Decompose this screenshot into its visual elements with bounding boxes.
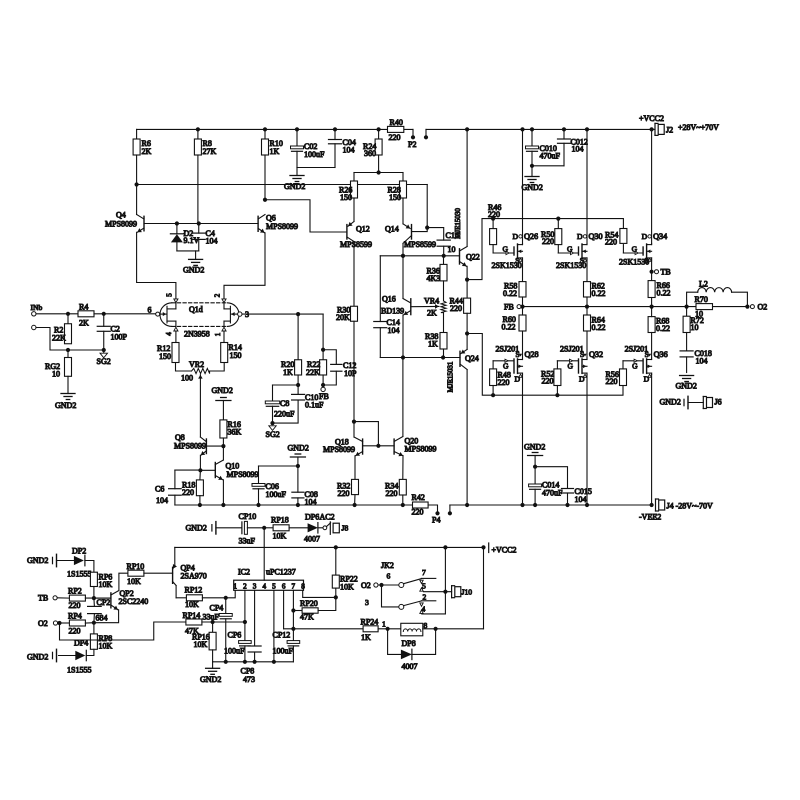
svg-text:MJE15030: MJE15030	[454, 208, 462, 239]
svg-text:GND2: GND2	[186, 524, 207, 533]
resistor RP6	[90, 572, 97, 586]
wire R8 down	[197, 155, 199, 224]
resistor RP24	[363, 626, 378, 632]
svg-text:MPS8599: MPS8599	[340, 240, 372, 249]
resistor R58	[522, 260, 524, 282]
pin 5	[174, 299, 178, 303]
wire bias rail corner to Q14 base	[426, 185, 428, 228]
wire +VCC2 line	[175, 546, 484, 548]
svg-text:5: 5	[272, 582, 276, 590]
svg-text:GND2: GND2	[55, 401, 76, 410]
ground SG2	[103, 350, 105, 353]
svg-text:S: S	[516, 350, 520, 359]
svg-text:33uF: 33uF	[239, 537, 256, 546]
pin 6	[156, 312, 160, 316]
svg-text:L2: L2	[699, 280, 708, 289]
svg-text:S: S	[580, 350, 584, 359]
resistor R2	[67, 314, 69, 324]
wire R6 to Q4 collector	[136, 155, 138, 215]
wire bias rail	[137, 184, 428, 186]
svg-text:Q22: Q22	[466, 253, 480, 262]
svg-text:G: G	[503, 245, 509, 254]
svg-text:3: 3	[253, 582, 257, 590]
wire R4 to pin6	[94, 313, 156, 315]
resistor RP20	[293, 610, 302, 612]
wire bias bottom line	[380, 357, 460, 359]
relay arm 1	[404, 579, 422, 584]
wire gate 651.6	[622, 245, 624, 253]
svg-text:47K: 47K	[300, 613, 314, 622]
wire Q6 collector junction	[263, 198, 267, 202]
svg-text:150: 150	[159, 352, 171, 361]
connector J8	[329, 522, 331, 534]
Q1d left half	[166, 306, 168, 323]
mosfet Q34 2SK1530	[642, 247, 644, 255]
resistor R12	[175, 331, 177, 343]
Q1d right half	[229, 306, 231, 323]
svg-text:220: 220	[338, 489, 350, 498]
svg-text:104: 104	[696, 357, 708, 366]
wire Q34 drain	[651, 129, 653, 243]
svg-text:GND2: GND2	[660, 398, 681, 407]
svg-text:MPS8099: MPS8099	[266, 222, 298, 231]
capacitor CP2	[93, 598, 96, 606]
ground GND2 below C018	[680, 375, 694, 377]
svg-text:2SC2240: 2SC2240	[119, 597, 149, 606]
resistor R48	[490, 369, 497, 386]
svg-text:J6: J6	[715, 398, 722, 407]
svg-text:10K: 10K	[185, 600, 199, 609]
svg-text:4: 4	[262, 582, 266, 590]
svg-text:RP18: RP18	[271, 516, 289, 525]
transistor Q18	[362, 439, 364, 454]
transistor Q1d 2N3958	[160, 303, 172, 327]
svg-text:G: G	[632, 362, 638, 371]
wire R30 to Q18	[353, 321, 355, 421]
wire to R2 bottom	[36, 328, 68, 351]
wire Q36 drain	[651, 375, 653, 506]
svg-text:Q16: Q16	[382, 295, 396, 304]
node TB	[651, 260, 653, 281]
svg-text:CP10: CP10	[239, 512, 257, 521]
transistor Q22 MJE15030	[459, 249, 461, 264]
svg-text:CP6: CP6	[228, 631, 242, 640]
svg-text:G: G	[632, 245, 638, 254]
resistor R66	[648, 281, 655, 298]
resistor R18	[199, 470, 202, 480]
wire Q36 source	[651, 333, 653, 359]
svg-text:0.1uF: 0.1uF	[305, 401, 324, 410]
resistor RP12	[186, 595, 202, 601]
svg-text:IC2: IC2	[238, 568, 250, 577]
svg-text:470uF: 470uF	[540, 152, 561, 161]
resistor R70	[696, 304, 713, 310]
svg-text:MPS8099: MPS8099	[174, 442, 206, 451]
svg-text:FB: FB	[504, 303, 514, 312]
svg-text:220: 220	[389, 133, 401, 142]
svg-text:D: D	[577, 232, 583, 241]
inductor L2	[687, 292, 698, 306]
diode DP2 1S1555	[74, 556, 84, 565]
svg-text:VR4: VR4	[424, 297, 439, 306]
svg-text:220: 220	[412, 508, 424, 517]
svg-text:33uF: 33uF	[203, 613, 220, 622]
svg-text:Q28: Q28	[525, 350, 539, 359]
resistor RP22	[335, 547, 337, 575]
svg-text:+28V~+70V: +28V~+70V	[678, 123, 719, 132]
resistor R10	[264, 129, 266, 139]
svg-text:MJE15031: MJE15031	[447, 361, 455, 392]
wire Q6 emitter to pin2	[224, 233, 265, 299]
capacitor C16	[427, 228, 444, 241]
capacitor C10	[292, 393, 305, 395]
svg-text:S: S	[645, 350, 649, 359]
transistor Q4	[143, 216, 145, 231]
svg-text:100P: 100P	[111, 333, 128, 342]
svg-text:-VEE2: -VEE2	[639, 513, 661, 522]
capacitor C2	[103, 314, 105, 327]
svg-text:CP12: CP12	[273, 631, 291, 640]
capacitor CP8	[248, 645, 261, 647]
svg-text:GND2: GND2	[200, 675, 221, 684]
resistor R20	[297, 314, 299, 360]
svg-text:Q24: Q24	[465, 354, 479, 363]
wire pin2 to CP6	[244, 590, 246, 640]
wire +VCC2 bus down	[483, 547, 485, 628]
svg-text:22K: 22K	[306, 368, 320, 377]
svg-text:220: 220	[450, 304, 462, 313]
svg-text:MPS8099: MPS8099	[105, 220, 137, 229]
svg-text:Q32: Q32	[589, 350, 603, 359]
svg-text:10K: 10K	[99, 580, 113, 589]
svg-text:0.22: 0.22	[657, 289, 671, 298]
resistor R14	[223, 331, 225, 343]
svg-text:220: 220	[542, 377, 554, 386]
resistor R4	[78, 311, 94, 317]
wire output mid line	[521, 306, 696, 308]
capacitor C04	[334, 129, 336, 139]
terminal AC2	[323, 526, 327, 530]
svg-text:O2: O2	[758, 303, 768, 312]
resistor R30	[353, 242, 355, 307]
wire top +VCC rail	[137, 128, 413, 130]
svg-text:C8: C8	[280, 399, 289, 408]
svg-text:1K: 1K	[270, 147, 280, 156]
resistor R72	[686, 307, 688, 317]
svg-text:Q30: Q30	[589, 232, 603, 241]
svg-text:7: 7	[422, 568, 426, 577]
connector J4	[655, 499, 657, 511]
svg-text:7: 7	[292, 582, 296, 590]
svg-text:1: 1	[214, 332, 222, 336]
wire relay pole 2	[382, 585, 399, 607]
mosfet Q26 2SK1530	[513, 247, 515, 255]
transistor Q8	[205, 439, 207, 454]
wire Q4 emitter to pin5	[137, 232, 176, 299]
svg-text:J2: J2	[666, 126, 673, 135]
svg-text:R70: R70	[695, 295, 708, 304]
svg-text:GND2: GND2	[522, 183, 543, 192]
svg-text:10: 10	[448, 245, 456, 254]
svg-text:G: G	[503, 362, 509, 371]
svg-text:220: 220	[69, 627, 81, 636]
capacitor C06	[258, 466, 260, 484]
wire Q14 collector down	[402, 243, 404, 255]
transistor Q6	[257, 216, 259, 231]
svg-text:6: 6	[282, 582, 286, 590]
resistor RP2	[69, 595, 85, 601]
ground GND2 bottom	[212, 662, 214, 669]
svg-text:CP4: CP4	[210, 604, 224, 613]
resistor R26	[351, 181, 358, 198]
svg-text:104: 104	[305, 498, 317, 507]
transistor Q10	[214, 463, 216, 478]
capacitor C14	[379, 256, 381, 322]
transistor Q12	[346, 225, 348, 239]
capacitor C010	[531, 129, 533, 146]
svg-text:DP8: DP8	[402, 639, 416, 648]
wire P gate bus	[467, 334, 623, 396]
resistor R28	[400, 181, 407, 198]
wire Q28 drain	[522, 375, 524, 506]
svg-text:Q1d: Q1d	[189, 305, 203, 314]
resistor R24	[378, 129, 380, 139]
svg-text:G: G	[568, 362, 574, 371]
svg-text:10K: 10K	[194, 640, 208, 649]
svg-text:220: 220	[606, 377, 618, 386]
svg-text:10: 10	[52, 370, 60, 379]
wire C010/C012 junction	[532, 165, 564, 167]
svg-text:150: 150	[230, 351, 242, 360]
transistor Q14	[411, 225, 413, 239]
svg-text:1K: 1K	[428, 340, 438, 349]
svg-text:GND2: GND2	[524, 443, 545, 452]
resistor R64	[584, 315, 591, 331]
svg-text:Q36: Q36	[654, 350, 668, 359]
svg-text:Q34: Q34	[653, 232, 667, 241]
terminal FB	[321, 387, 325, 391]
wire C02/C04 junction	[297, 167, 335, 169]
wire pin4 from CP10	[263, 528, 265, 580]
svg-text:O2: O2	[38, 619, 48, 628]
pin 3	[238, 312, 242, 316]
svg-text:MPS8099: MPS8099	[323, 445, 355, 454]
resistor R6	[136, 129, 138, 139]
ground GND2 below RG2	[67, 376, 69, 393]
resistor R22	[322, 350, 324, 360]
resistor R62	[586, 260, 588, 282]
capacitor C014	[529, 484, 542, 487]
wire gate 522.5	[492, 361, 494, 369]
svg-text:MPS8099: MPS8099	[227, 470, 259, 479]
svg-text:RP12: RP12	[185, 586, 203, 595]
svg-text:220: 220	[69, 601, 81, 610]
svg-text:2: 2	[243, 582, 247, 590]
svg-text:220: 220	[182, 488, 194, 497]
svg-text:0.22: 0.22	[502, 323, 516, 332]
svg-text:1K: 1K	[283, 368, 293, 377]
wire Q6 collector to Q12 base	[265, 200, 346, 232]
resistor RP10	[128, 570, 144, 576]
resistor R46	[492, 219, 494, 229]
wire Q18 base tie	[354, 422, 378, 446]
ground GND2 below D2	[195, 251, 197, 260]
wire RP10 to QP4 base	[144, 572, 173, 574]
wire pin3 to feedback	[242, 313, 323, 315]
wire R10 down	[264, 155, 266, 200]
svg-text:P4: P4	[432, 516, 440, 525]
resistor R44	[466, 280, 468, 299]
wire pin3 to CP8	[254, 590, 256, 646]
svg-text:150: 150	[389, 193, 401, 202]
svg-text:RP14: RP14	[183, 611, 201, 620]
svg-text:O2: O2	[361, 581, 371, 590]
svg-text:1: 1	[233, 582, 237, 590]
svg-text:5: 5	[166, 293, 174, 297]
capacitor C12	[323, 350, 336, 365]
capacitor CP6	[239, 641, 252, 644]
wire Q32 drain	[586, 375, 588, 506]
connector J10	[451, 586, 453, 598]
svg-text:J4 -28V~-70V: J4 -28V~-70V	[667, 502, 714, 511]
svg-text:104: 104	[575, 495, 587, 504]
wire pin7 to CP12	[292, 590, 294, 640]
svg-text:RP4: RP4	[68, 612, 82, 621]
resistor R52	[554, 369, 561, 386]
mosfet Q32 2SJ201	[578, 359, 580, 373]
svg-text:R42: R42	[412, 493, 425, 502]
wire J10 to VCC2	[444, 547, 446, 591]
resistor RP16	[212, 622, 214, 632]
wire D2/C4 bottom	[177, 250, 199, 252]
svg-text:4: 4	[165, 332, 173, 336]
svg-text:220: 220	[542, 237, 554, 246]
svg-text:GND2: GND2	[284, 182, 305, 191]
svg-text:MPS8099: MPS8099	[405, 445, 437, 454]
capacitor CP12	[287, 641, 300, 644]
svg-text:G: G	[567, 245, 573, 254]
svg-text:0.22: 0.22	[592, 289, 606, 298]
power flag +VCC2	[488, 543, 490, 553]
svg-text:GND2: GND2	[183, 266, 204, 275]
wire pin5 ground	[273, 590, 275, 662]
resistor R38	[443, 313, 445, 333]
svg-text:P2: P2	[408, 140, 416, 149]
svg-text:GND2: GND2	[27, 653, 48, 662]
mosfet Q28 2SJ201	[513, 359, 515, 373]
svg-text:INb: INb	[31, 303, 43, 312]
transistor QP4 2SA970	[172, 567, 174, 583]
svg-text:360: 360	[364, 149, 376, 158]
resistor R68	[648, 317, 655, 333]
resistor R36	[443, 256, 445, 265]
svg-text:R40: R40	[390, 118, 403, 127]
svg-text:684: 684	[96, 614, 108, 623]
svg-text:GND2: GND2	[288, 444, 309, 453]
wire Q18/Q20 base line	[363, 445, 395, 447]
svg-text:DP6: DP6	[305, 513, 319, 522]
transistor Q24 MJE15031	[459, 351, 461, 366]
svg-text:+VCC2: +VCC2	[492, 546, 517, 555]
svg-text:100: 100	[181, 374, 193, 383]
capacitor C6	[175, 469, 201, 471]
svg-text:10K: 10K	[99, 642, 113, 651]
svg-text:2SK1530: 2SK1530	[492, 261, 522, 270]
svg-text:2K: 2K	[79, 319, 89, 328]
svg-text:2SA970: 2SA970	[181, 572, 207, 581]
svg-text:1K: 1K	[361, 633, 371, 642]
svg-text:uPC1237: uPC1237	[266, 568, 296, 577]
svg-text:4007: 4007	[402, 662, 418, 671]
transistor QP2 2SC2240	[110, 593, 112, 608]
zener D2 9.1V	[176, 224, 178, 234]
svg-text:473: 473	[243, 675, 255, 684]
svg-text:10K: 10K	[340, 583, 354, 592]
svg-text:36K: 36K	[228, 428, 242, 437]
resistor R54	[620, 229, 627, 244]
svg-text:104: 104	[343, 146, 355, 155]
wire Q22 emitter to gate bus	[467, 219, 623, 280]
svg-text:220uF: 220uF	[274, 410, 295, 419]
resistor R42	[413, 502, 429, 508]
svg-text:220: 220	[488, 210, 500, 219]
svg-text:100uF: 100uF	[266, 490, 287, 499]
svg-text:CP2: CP2	[97, 598, 111, 607]
capacitor C012	[563, 129, 565, 139]
svg-text:GND2: GND2	[676, 382, 697, 391]
wire relay to J10	[424, 591, 452, 593]
svg-text:4007: 4007	[304, 535, 320, 544]
svg-text:SG2: SG2	[266, 430, 280, 439]
svg-text:JK2: JK2	[381, 561, 394, 570]
svg-text:Q12: Q12	[356, 225, 370, 234]
wire Q26 drain	[522, 129, 524, 243]
svg-text:104: 104	[388, 326, 400, 335]
svg-text:2K: 2K	[427, 309, 437, 318]
resistor R32	[352, 479, 359, 494]
svg-text:20K: 20K	[336, 313, 350, 322]
wire gate 522.5	[492, 245, 494, 253]
wire gate 651.6	[622, 361, 624, 369]
svg-text:0.22: 0.22	[592, 323, 606, 332]
svg-text:RP24: RP24	[361, 618, 379, 627]
wire O2 to RP14	[60, 622, 186, 640]
svg-text:RP2: RP2	[68, 587, 82, 596]
node P4	[428, 505, 437, 512]
svg-text:4K3: 4K3	[427, 274, 441, 283]
node P2	[412, 129, 414, 136]
terminal input ground	[32, 325, 36, 329]
svg-text:D: D	[513, 232, 519, 241]
resistor RP4	[69, 620, 85, 626]
svg-text:+VCC2: +VCC2	[639, 114, 664, 123]
svg-text:10K: 10K	[273, 532, 287, 541]
svg-text:1: 1	[382, 620, 386, 629]
wire R24 to R26/R28 tee	[378, 155, 380, 173]
svg-text:0.22: 0.22	[656, 324, 670, 333]
connector J2	[650, 127, 654, 131]
svg-text:Q4: Q4	[116, 211, 126, 220]
wire bottom ground rail	[213, 661, 294, 663]
svg-text:RP20: RP20	[300, 599, 318, 608]
mosfet Q30 2SK1530	[578, 247, 580, 255]
svg-text:220: 220	[605, 238, 617, 247]
svg-text:22K: 22K	[52, 334, 66, 343]
svg-text:MPS8599: MPS8599	[404, 240, 436, 249]
svg-text:27K: 27K	[203, 147, 217, 156]
potentiometer VR2	[176, 363, 192, 372]
svg-text:2SK1530: 2SK1530	[556, 261, 586, 270]
